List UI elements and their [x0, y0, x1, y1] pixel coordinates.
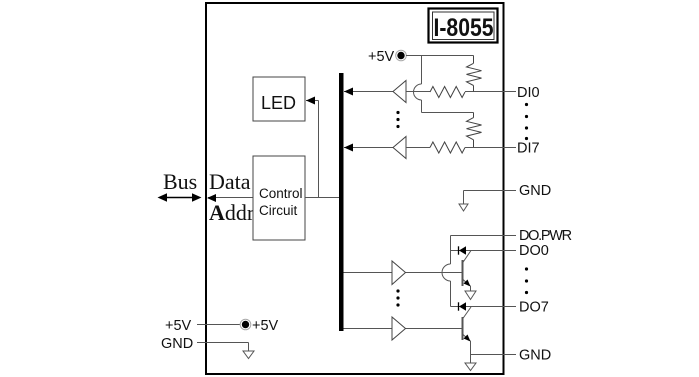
svg-text:DI0: DI0 — [517, 85, 540, 101]
svg-text:Addr: Addr — [209, 200, 255, 225]
svg-text:GND: GND — [519, 183, 551, 199]
svg-text:GND: GND — [161, 336, 193, 352]
svg-text:+5V: +5V — [165, 318, 192, 334]
svg-text:+5V: +5V — [368, 49, 395, 65]
svg-text:DO.PWR: DO.PWR — [519, 228, 572, 244]
svg-text:DO7: DO7 — [519, 300, 549, 316]
svg-text:Bus: Bus — [163, 169, 197, 194]
svg-text:+5V: +5V — [252, 318, 279, 334]
svg-text:DI7: DI7 — [517, 141, 540, 157]
svg-text:Control: Control — [259, 186, 303, 201]
svg-text:Circuit: Circuit — [259, 203, 298, 218]
svg-text:LED: LED — [261, 93, 296, 113]
svg-text:DO0: DO0 — [519, 243, 549, 259]
svg-text:Data: Data — [209, 169, 251, 194]
svg-text:I-8055: I-8055 — [433, 13, 493, 41]
svg-text:GND: GND — [519, 348, 551, 364]
